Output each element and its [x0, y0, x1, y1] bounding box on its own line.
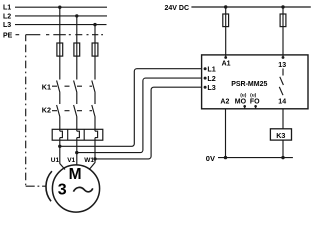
svg-text:0V: 0V — [206, 154, 215, 163]
svg-text:A1: A1 — [222, 60, 231, 67]
fuse F6 — [280, 14, 286, 27]
wire phase1 K2-OL — [59, 117, 61, 131]
wire L1 rail — [15, 6, 107, 8]
overload element phase1 — [60, 131, 63, 137]
wire U1 to L1 riser — [60, 69, 202, 147]
svg-text:U1: U1 — [51, 157, 60, 164]
wire U1 down — [60, 138, 65, 170]
svg-text:L3: L3 — [3, 22, 11, 29]
wire A1 drop — [225, 7, 227, 58]
svg-text:14: 14 — [278, 98, 286, 105]
contact K1 pole3 — [92, 81, 95, 93]
terminal dot MO — [243, 105, 246, 108]
wire K1 linkage dashed — [52, 85, 92, 87]
contact 13-14 blade1 — [280, 77, 284, 85]
overload element phase2 — [77, 131, 80, 137]
wire A2 to 0V — [225, 109, 227, 158]
wire L2 rail — [15, 15, 107, 17]
wire 0V rail — [218, 157, 293, 159]
junction dot 13 tap — [281, 5, 284, 8]
wire phase2 K1-K2 — [76, 93, 78, 105]
terminal dot L1 — [204, 67, 207, 70]
svg-text:L2: L2 — [3, 13, 11, 20]
fuse F5 — [223, 14, 229, 27]
contact K2 pole1 — [57, 105, 60, 117]
svg-text:PSR-MM25: PSR-MM25 — [231, 81, 267, 88]
contact K1 pole1 — [57, 81, 60, 93]
terminal MO stub — [244, 106, 246, 109]
svg-text:W1: W1 — [84, 157, 94, 164]
svg-text:K3: K3 — [276, 131, 285, 140]
wire K3 to 0V — [282, 140, 284, 158]
svg-text:V1: V1 — [67, 157, 75, 164]
junction dot K3-0V — [281, 156, 284, 159]
fuse F1 — [57, 43, 63, 56]
svg-text:L3: L3 — [207, 83, 215, 92]
wire 14 to K3 — [282, 109, 284, 129]
junction dot W1 tap — [93, 157, 96, 160]
svg-text:(u): (u) — [250, 92, 257, 98]
wire PE branch corner — [25, 35, 27, 42]
svg-text:3: 3 — [58, 182, 67, 199]
contact 13-14 upper stub — [282, 69, 284, 76]
svg-text:(u): (u) — [240, 92, 247, 98]
junction dot L2 tap — [75, 14, 78, 17]
overload divider 1 — [67, 129, 69, 140]
relay module PSR-MM25 box — [202, 55, 308, 109]
svg-text:M: M — [69, 166, 82, 183]
terminal dot FO — [254, 105, 257, 108]
motor tilde symbol — [73, 187, 92, 191]
overload element phase3 — [95, 131, 98, 137]
junction dot A1 tap — [224, 5, 227, 8]
terminal FO stub — [255, 106, 257, 109]
wire phase3 K2-OL — [94, 117, 96, 131]
junction dot V1 tap — [75, 151, 78, 154]
svg-text:K2: K2 — [42, 105, 51, 114]
wire PE vertical dash-dot — [25, 45, 27, 187]
wire K2 linkage dashed — [52, 110, 92, 112]
wire W1 down — [89, 138, 95, 170]
svg-text:PE: PE — [3, 32, 13, 39]
terminal dot L2 — [204, 77, 207, 80]
terminal dot 13 — [282, 56, 285, 59]
wire V1 to L2 riser — [77, 78, 202, 153]
wire phase2 drop — [76, 16, 78, 80]
wire W1 to L3 riser — [95, 87, 202, 159]
overload divider 2 — [83, 129, 85, 140]
wire 24V rail — [191, 6, 310, 8]
svg-text:L1: L1 — [207, 65, 215, 74]
svg-text:A2: A2 — [220, 98, 229, 105]
contact 13-14 blade2 — [279, 87, 283, 95]
svg-text:L1: L1 — [3, 5, 11, 12]
junction dot U1 tap — [58, 145, 61, 148]
motor PE frame arc — [46, 171, 52, 201]
svg-text:13: 13 — [278, 62, 286, 69]
wire phase3 drop — [94, 25, 96, 80]
fuse F3 — [92, 43, 98, 56]
junction dot L1 tap — [58, 6, 61, 9]
wire phase2 K2-OL — [76, 117, 78, 131]
overload relay F4 body — [52, 129, 103, 140]
svg-text:FO: FO — [250, 98, 260, 105]
svg-text:L2: L2 — [207, 74, 215, 83]
svg-text:MO: MO — [235, 98, 247, 105]
junction dot A2-0V — [224, 156, 227, 159]
wire 13 drop — [282, 7, 284, 58]
wire PE to motor frame — [26, 185, 47, 187]
motor M1 circle — [52, 165, 99, 212]
wire L3 rail — [15, 24, 107, 26]
contact K1 pole2 — [74, 81, 77, 93]
wire phase1 K1-K2 — [59, 93, 61, 105]
contact K2 pole3 — [92, 105, 95, 117]
junction dot L3 tap — [93, 23, 96, 26]
fuse F2 — [74, 43, 80, 56]
terminal dot A1 — [224, 56, 227, 59]
svg-text:24V DC: 24V DC — [165, 5, 190, 12]
wire PE rail dashed — [16, 34, 104, 36]
contact K2 pole2 — [74, 105, 77, 117]
svg-text:K1: K1 — [42, 82, 51, 91]
wire V1 down — [76, 138, 78, 166]
relay coil K3 box — [270, 129, 291, 140]
wire phase3 K1-K2 — [94, 93, 96, 105]
wire phase1 drop — [59, 7, 61, 79]
terminal dot L3 — [204, 86, 207, 89]
